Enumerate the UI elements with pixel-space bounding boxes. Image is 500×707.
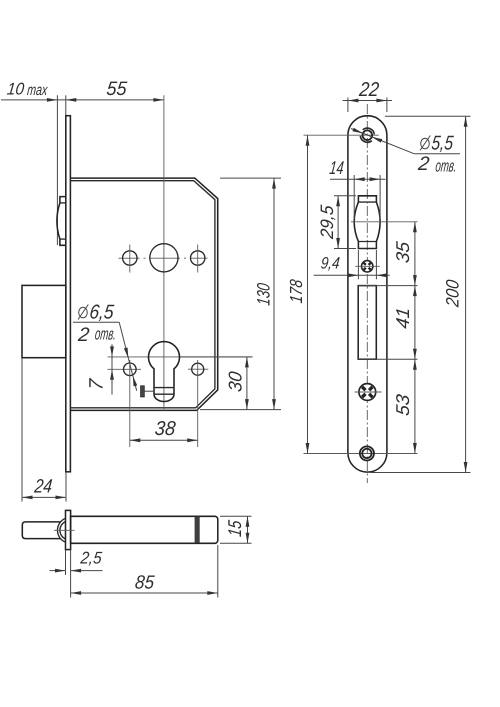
- svg-text:30: 30: [225, 370, 246, 393]
- svg-text:15: 15: [224, 519, 245, 538]
- top screw hole: [304, 134, 379, 136]
- dim 29,5: [334, 195, 356, 197]
- svg-text:200: 200: [443, 279, 463, 309]
- svg-text:max: max: [26, 82, 49, 99]
- bolt rod body: [71, 516, 218, 543]
- svg-text:14: 14: [329, 157, 345, 178]
- dim 200: [385, 115, 471, 117]
- lock body inner contour (cover plate): [70, 181, 215, 408]
- dim 15: [220, 515, 252, 517]
- latch window centerline: [351, 221, 418, 223]
- svg-text:41: 41: [392, 306, 413, 330]
- dim 2,5: [65, 551, 67, 576]
- svg-text:6,5: 6,5: [88, 302, 115, 324]
- svg-text:отв.: отв.: [435, 156, 458, 175]
- faceplate side view: [66, 116, 71, 472]
- latch window (barrel): [354, 196, 380, 249]
- holes centerline top row: [119, 257, 208, 259]
- leader to hole: [119, 322, 137, 391]
- deadbolt window: [358, 286, 376, 360]
- dim 14: [353, 175, 355, 219]
- rod centerline: [54, 529, 75, 531]
- node: extension faceplate front (10 max / 55): [65, 95, 67, 115]
- euro cylinder profile: [148, 342, 179, 402]
- small hole top-left: [123, 251, 137, 265]
- node: extension line latch tip (10 max): [56, 95, 58, 245]
- dark band near rod end: [195, 517, 200, 543]
- phillips screw upper: [362, 261, 373, 272]
- cylinder fixing screw pocket: [141, 386, 145, 397]
- dim 24: [21, 358, 23, 502]
- svg-text:29,5: 29,5: [317, 203, 337, 240]
- vertical centerline: [366, 104, 368, 483]
- svg-text:22: 22: [357, 79, 380, 101]
- dim 9,4: [357, 250, 359, 279]
- dim 7: [111, 344, 113, 394]
- dim 178: [307, 135, 309, 453]
- bolt flange: [66, 510, 71, 549]
- svg-text:5,5: 5,5: [430, 133, 454, 155]
- dim 38: [130, 439, 198, 441]
- spindle hole: [150, 244, 178, 272]
- wire: 10max/55 dimension line: [1, 99, 164, 101]
- svg-text:отв.: отв.: [94, 325, 117, 344]
- bottom row holes centerlines: [108, 368, 142, 370]
- small hole top-right: [191, 251, 205, 265]
- label dia 6,5 / 2 otv: [79, 307, 88, 318]
- dim chain 35/41/53: [414, 222, 416, 454]
- svg-text:130: 130: [254, 282, 274, 306]
- svg-text:10: 10: [6, 80, 25, 99]
- main vertical centerline: [163, 95, 165, 411]
- dim 85: [217, 545, 219, 598]
- svg-text:178: 178: [286, 278, 306, 304]
- lock body outer contour: [70, 178, 217, 410]
- svg-text:38: 38: [154, 418, 178, 440]
- svg-text:2,5: 2,5: [79, 549, 103, 568]
- deadbolt protruding box: [22, 285, 66, 357]
- phillips screw lower: [359, 384, 376, 401]
- svg-text:2: 2: [416, 153, 430, 175]
- dim 22: [347, 97, 349, 112]
- faceplate plan: [348, 116, 387, 472]
- bolt stem: [22, 522, 60, 539]
- small hole bottom-left: [124, 363, 137, 376]
- svg-text:9,4: 9,4: [320, 253, 341, 272]
- svg-text:55: 55: [105, 78, 127, 100]
- dim 130: [220, 177, 281, 179]
- svg-text:85: 85: [134, 573, 156, 594]
- extension lines for 38 (through holes): [129, 360, 131, 447]
- svg-text:24: 24: [33, 475, 54, 497]
- svg-text:35: 35: [392, 240, 413, 264]
- label dia 5,5 / 2 otv with leader: [351, 129, 414, 154]
- small hole bottom-right: [192, 363, 204, 375]
- svg-text:53: 53: [392, 393, 413, 417]
- dim 30: [180, 356, 253, 358]
- latch bolt side view: [57, 197, 66, 246]
- svg-text:2: 2: [76, 324, 90, 346]
- bolt head arcs: [57, 518, 65, 542]
- bottom screw hole: [304, 453, 418, 455]
- cylinder centerline horizontal: [108, 356, 253, 358]
- extension lines 41: [358, 285, 417, 287]
